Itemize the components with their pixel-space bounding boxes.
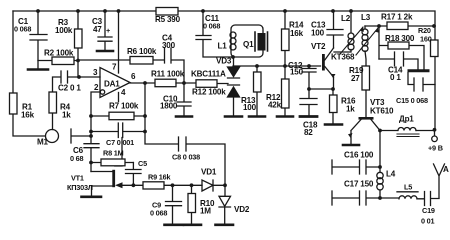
svg-text:A: A (443, 165, 449, 174)
svg-text:82: 82 (304, 128, 313, 137)
svg-text:C19: C19 (422, 206, 435, 215)
svg-text:1k: 1k (346, 105, 355, 114)
svg-text:C7 0 001: C7 0 001 (106, 138, 134, 147)
svg-text:R17 1 2k: R17 1 2k (381, 13, 413, 22)
svg-text:+9 В: +9 В (428, 144, 443, 153)
svg-text:0 1: 0 1 (390, 73, 401, 82)
svg-text:C16 100: C16 100 (344, 151, 374, 160)
svg-text:100k: 100k (55, 26, 73, 35)
svg-text:1M: 1M (200, 207, 211, 216)
svg-text:KT368: KT368 (331, 53, 355, 62)
svg-text:0 01: 0 01 (421, 217, 435, 226)
svg-text:C2 0 1: C2 0 1 (58, 84, 81, 93)
svg-text:VD3: VD3 (216, 57, 232, 66)
svg-text:2: 2 (94, 83, 99, 92)
svg-text:1k: 1k (62, 111, 71, 120)
svg-text:R9 16k: R9 16k (148, 173, 171, 182)
svg-text:Др1: Др1 (399, 115, 414, 124)
svg-text:16k: 16k (21, 111, 35, 120)
svg-text:M1: M1 (37, 138, 49, 147)
svg-text:R5 390: R5 390 (155, 15, 181, 24)
svg-text:VT2: VT2 (311, 42, 326, 51)
svg-text:4: 4 (121, 88, 126, 97)
svg-text:0 068: 0 068 (14, 25, 31, 34)
svg-text:47: 47 (93, 25, 102, 34)
svg-text:3: 3 (93, 68, 98, 77)
svg-text:160: 160 (420, 35, 432, 44)
svg-text:VD2: VD2 (234, 205, 250, 214)
svg-text:16k: 16k (290, 29, 304, 38)
svg-text:R7 100k: R7 100k (109, 102, 139, 111)
svg-text:0 68: 0 68 (70, 154, 84, 163)
svg-text:VD1: VD1 (201, 168, 217, 177)
svg-text:R8 1M: R8 1M (103, 149, 124, 158)
svg-text:DA1: DA1 (104, 80, 120, 89)
svg-text:7: 7 (112, 63, 117, 72)
svg-text:+: + (106, 26, 110, 35)
svg-text:0 068: 0 068 (203, 22, 220, 31)
svg-text:C17 150: C17 150 (344, 180, 374, 189)
svg-text:R18 300: R18 300 (385, 34, 415, 43)
svg-text:R12 100k: R12 100k (192, 88, 226, 97)
svg-text:R6 100k: R6 100k (127, 47, 157, 56)
svg-text:L5: L5 (404, 183, 412, 192)
svg-text:100: 100 (311, 29, 325, 38)
svg-text:L3: L3 (361, 13, 371, 22)
svg-text:KBC111A: KBC111A (191, 70, 226, 79)
svg-text:R11 100k: R11 100k (151, 70, 185, 79)
svg-text:100: 100 (243, 103, 257, 112)
svg-text:6: 6 (131, 72, 136, 81)
svg-text:27: 27 (351, 74, 360, 83)
svg-text:150: 150 (290, 68, 304, 77)
svg-text:1800: 1800 (160, 102, 178, 111)
svg-text:L4: L4 (386, 170, 396, 179)
svg-text:0 068: 0 068 (150, 209, 167, 218)
svg-text:КП303Л: КП303Л (67, 183, 93, 192)
svg-text:300: 300 (162, 41, 176, 50)
svg-text:KT610: KT610 (370, 107, 394, 116)
svg-text:Q1: Q1 (243, 40, 254, 49)
svg-text:C5: C5 (138, 159, 147, 168)
svg-text:C8 0 038: C8 0 038 (172, 153, 200, 162)
svg-text:R2 100k: R2 100k (44, 49, 74, 58)
svg-text:C15 0 068: C15 0 068 (396, 96, 428, 105)
svg-text:VT1: VT1 (71, 174, 84, 183)
svg-text:42k: 42k (268, 101, 282, 110)
svg-text:L1: L1 (218, 42, 228, 51)
svg-text:L2: L2 (341, 14, 351, 23)
